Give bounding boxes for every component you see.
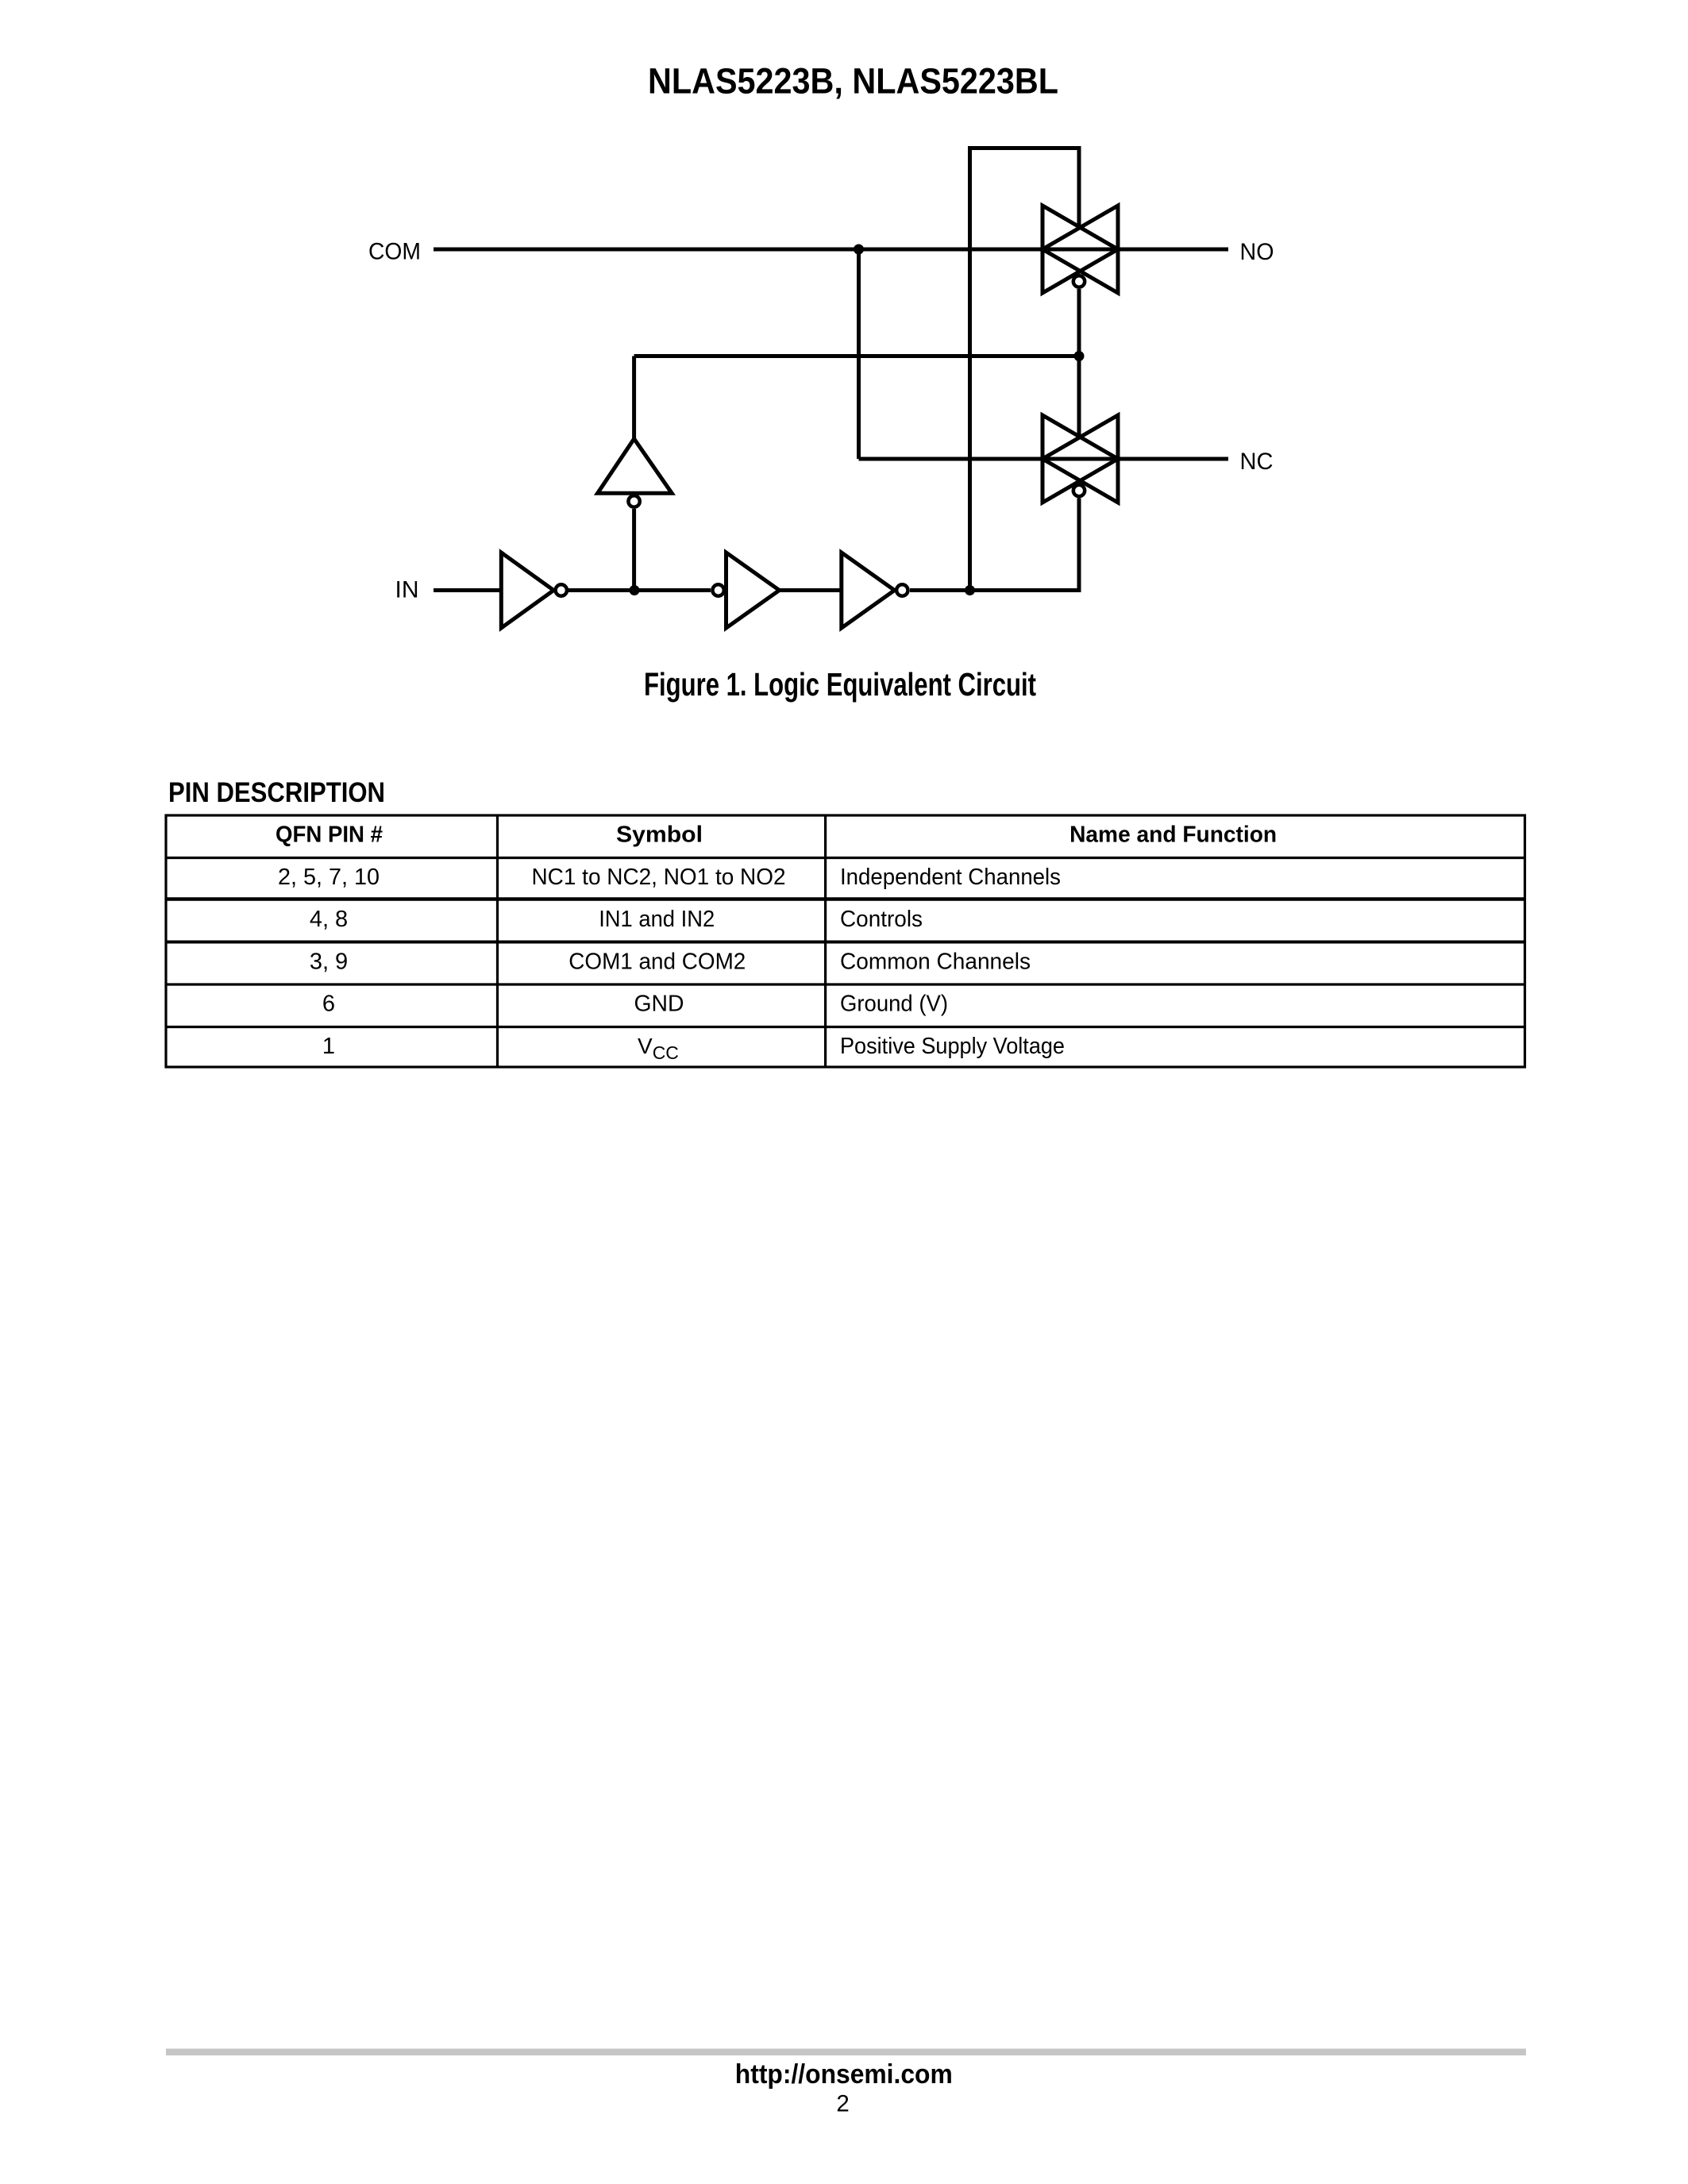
svg-text:2, 5, 7, 10: 2, 5, 7, 10 xyxy=(278,865,380,890)
junction node B xyxy=(1074,351,1085,361)
wire U3 to U4 xyxy=(780,588,842,592)
svg-text:NO: NO xyxy=(1240,239,1274,265)
wire IN to U1 xyxy=(434,588,501,592)
wire U1 bubble to node C xyxy=(568,588,634,592)
wire node C to U3 input bubble xyxy=(634,588,711,592)
pin table column divider 1 xyxy=(496,815,499,1067)
svg-text:1: 1 xyxy=(322,1034,335,1059)
svg-text:GND: GND xyxy=(634,992,684,1017)
wire control loop from IN node up and over to SW1 top xyxy=(970,148,1080,591)
svg-text:6: 6 xyxy=(322,992,335,1017)
junction node D on IN output line xyxy=(965,585,975,595)
svg-text:IN: IN xyxy=(395,576,419,603)
pin table row line 4 xyxy=(166,983,1525,985)
junction node C xyxy=(630,585,640,595)
svg-text:2: 2 xyxy=(836,2090,849,2117)
inverter U4 xyxy=(842,553,908,628)
svg-text:Common Channels: Common Channels xyxy=(840,949,1031,975)
svg-text:IN1 and IN2: IN1 and IN2 xyxy=(599,907,715,932)
wire COM horizontal to NO xyxy=(434,248,1228,252)
svg-text:3, 9: 3, 9 xyxy=(310,949,348,975)
svg-text:COM1 and COM2: COM1 and COM2 xyxy=(568,949,746,975)
svg-text:http://onsemi.com: http://onsemi.com xyxy=(735,2059,953,2090)
wire node B riser to U2 apex xyxy=(632,356,636,440)
wire U4 bubble to SW2 control corner xyxy=(910,588,1079,592)
inverter U2 (points up) xyxy=(598,439,673,507)
transmission gate SW1 (NO) xyxy=(1042,206,1118,293)
svg-text:NLAS5223B, NLAS5223BL: NLAS5223B, NLAS5223BL xyxy=(648,61,1058,102)
wire SW2 bubble down to IN line corner xyxy=(1077,499,1081,593)
svg-text:Positive Supply Voltage: Positive Supply Voltage xyxy=(840,1034,1065,1059)
svg-text:VCC: VCC xyxy=(638,1034,679,1063)
svg-text:COM: COM xyxy=(368,239,421,265)
junction node A on COM line xyxy=(854,245,864,255)
svg-text:4, 8: 4, 8 xyxy=(310,907,348,932)
wire node A down xyxy=(857,249,861,459)
footer separator bar xyxy=(166,2049,1526,2056)
svg-text:Name and Function: Name and Function xyxy=(1069,822,1277,847)
svg-text:PIN DESCRIPTION: PIN DESCRIPTION xyxy=(168,776,385,808)
svg-text:Controls: Controls xyxy=(840,907,923,932)
table row 2 xyxy=(310,907,923,932)
wire COM branch horizontal to NC xyxy=(859,457,1229,461)
pin table row line 3 xyxy=(166,941,1525,944)
pin table row line 2 xyxy=(166,897,1525,901)
pin table row line 1 xyxy=(166,857,1525,859)
svg-text:Independent Channels: Independent Channels xyxy=(840,865,1061,890)
svg-text:Figure 1. Logic Equivalent Cir: Figure 1. Logic Equivalent Circuit xyxy=(644,666,1036,703)
transmission gate SW2 (NC) xyxy=(1042,415,1118,503)
table row 3 xyxy=(310,949,1031,975)
table header row xyxy=(276,822,1277,847)
pin table outer border xyxy=(166,815,1525,1067)
wire SW1 bubble down through node B to SW2 top xyxy=(1077,289,1081,438)
svg-text:NC1 to NC2, NO1 to NO2: NC1 to NC2, NO1 to NO2 xyxy=(532,865,786,890)
inverter U3 (input bubble) xyxy=(712,553,779,628)
table row 1 xyxy=(278,865,1061,890)
wire U2 bubble down to node C xyxy=(632,509,636,591)
table row 4 xyxy=(322,992,948,1017)
table row 5 xyxy=(322,1034,1065,1063)
wire inverter U2 output to node B xyxy=(634,354,1079,358)
pin table row line 5 xyxy=(166,1026,1525,1028)
svg-text:Ground (V): Ground (V) xyxy=(840,992,948,1017)
svg-text:Symbol: Symbol xyxy=(616,822,703,847)
svg-text:NC: NC xyxy=(1240,449,1274,475)
svg-text:QFN PIN #: QFN PIN # xyxy=(276,822,383,847)
pin table column divider 2 xyxy=(824,815,827,1067)
inverter U1 xyxy=(501,553,567,628)
